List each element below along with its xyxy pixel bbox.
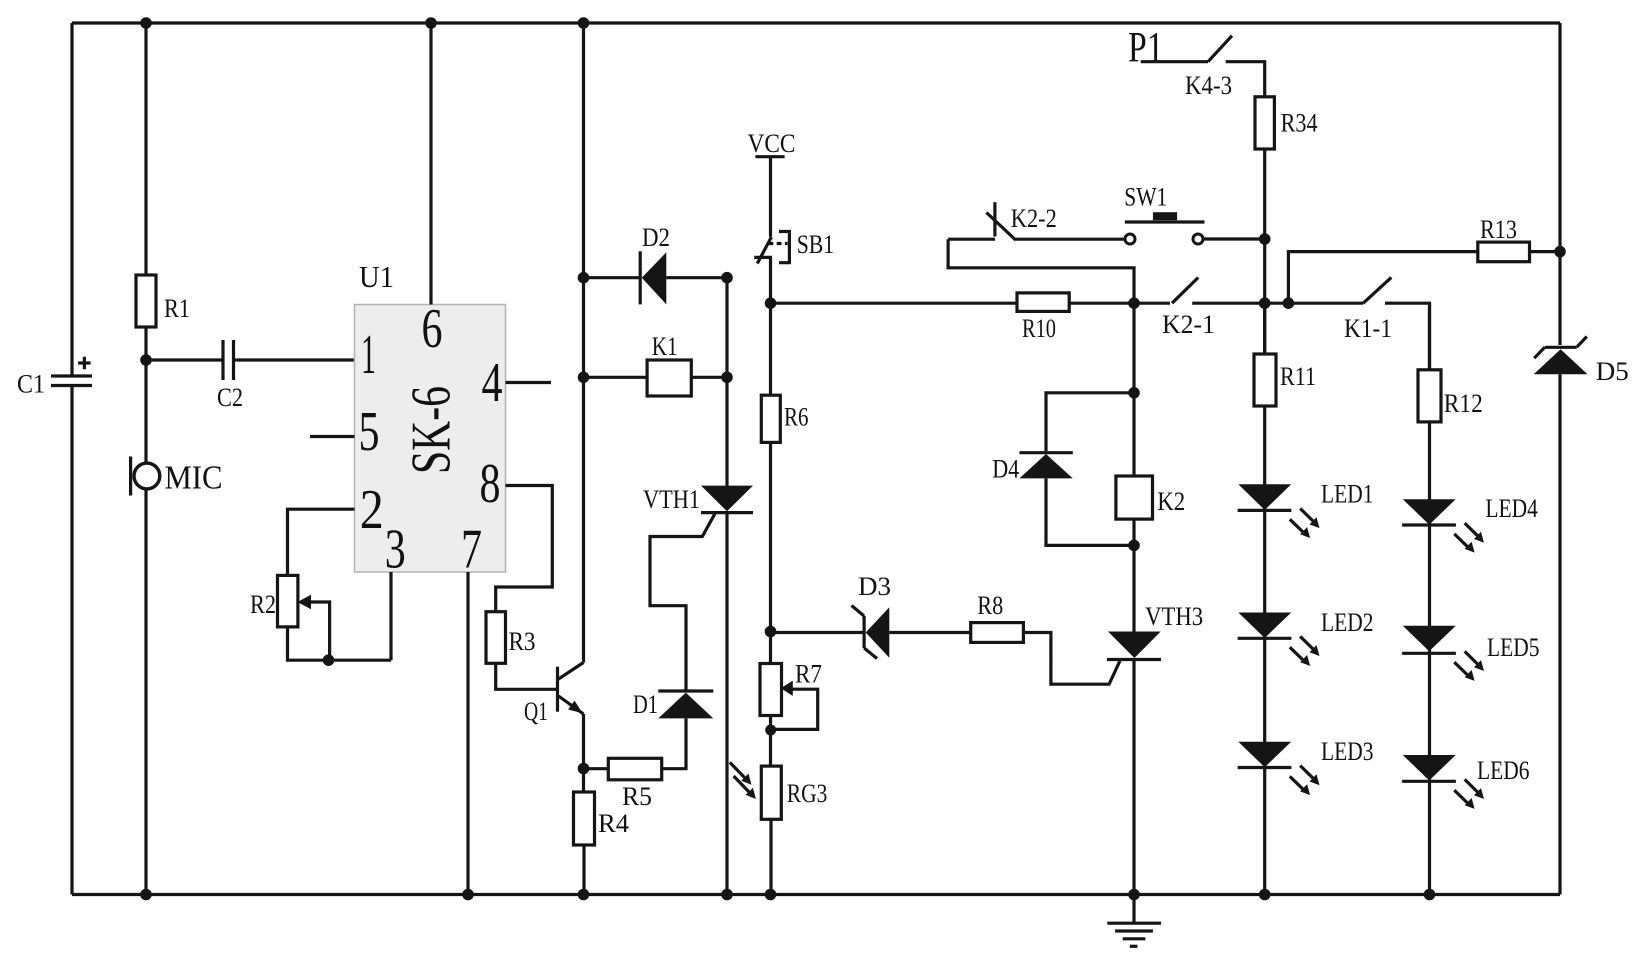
wire R6 down: [769, 442, 772, 664]
resistor R12: [1418, 370, 1483, 422]
potentiometer R2: [250, 575, 330, 660]
wire SB1 down: [769, 258, 772, 303]
resistor R8: [971, 591, 1024, 643]
wire K2-2 left drop: [948, 239, 1134, 303]
wire R1 branch: [144, 23, 147, 275]
svg-text:K2: K2: [1157, 487, 1185, 516]
capacitor C2: [217, 340, 243, 412]
switch P1 / K4-3: [1128, 24, 1265, 100]
wire pin4 stub: [506, 381, 552, 384]
wire R5 left: [584, 767, 609, 770]
diode D5 zener: [1534, 337, 1629, 387]
svg-text:SB1: SB1: [797, 230, 835, 259]
wire pin8 to R3: [496, 486, 553, 612]
switch SW1: [1124, 183, 1264, 245]
wire pin7 to bottom: [466, 572, 469, 895]
node R7 loop junction: [765, 725, 776, 736]
wire MIC to bottom: [144, 490, 147, 895]
svg-text:R3: R3: [509, 627, 536, 656]
wire top bus: [72, 21, 1560, 24]
svg-text:MIC: MIC: [165, 460, 223, 497]
wire D2 right: [666, 276, 727, 279]
svg-text:R1: R1: [164, 294, 190, 323]
wire D2 left: [584, 276, 641, 279]
svg-text:R34: R34: [1281, 108, 1318, 137]
potentiometer R7: [760, 660, 822, 730]
svg-text:K2-1: K2-1: [1162, 310, 1215, 339]
svg-text:D5: D5: [1596, 357, 1629, 386]
node D2 right: [721, 272, 733, 284]
photoresistor RG3: [730, 762, 828, 819]
wire K1 left: [584, 376, 648, 379]
resistor R6: [761, 395, 808, 442]
wire D4 branch bottom: [1046, 478, 1134, 545]
svg-text:K1-1: K1-1: [1344, 314, 1392, 343]
svg-text:LED1: LED1: [1321, 480, 1374, 509]
node emitter/R5 junction: [578, 763, 590, 775]
svg-text:R11: R11: [1280, 362, 1316, 391]
wire RG3 to bottom: [769, 819, 772, 894]
wire VCC row to R10: [771, 302, 1018, 305]
wire R8 to VTH3 gate: [1023, 633, 1120, 685]
svg-text:K2-2: K2-2: [1011, 204, 1057, 233]
svg-text:R8: R8: [977, 591, 1003, 620]
wire D3 left: [771, 631, 865, 634]
svg-text:SK-6: SK-6: [401, 386, 463, 474]
pushbutton SB1: [754, 230, 834, 264]
node bottom bus junctions: [140, 889, 1435, 901]
thyristor VTH1: [643, 485, 753, 514]
svg-text:6: 6: [422, 298, 443, 360]
op-amp U1 chip SK-6: [355, 259, 506, 581]
svg-text:LED6: LED6: [1477, 756, 1530, 785]
svg-text:C1: C1: [17, 370, 45, 399]
node K2 bottom: [1128, 540, 1140, 552]
wire emitter down: [582, 714, 585, 792]
wire D1 to R5: [662, 718, 686, 768]
node VCC row: [765, 297, 777, 309]
switch K1-1: [1344, 277, 1430, 369]
svg-text:1: 1: [361, 324, 376, 386]
wire R2 bottom loop: [288, 627, 392, 660]
relay coil K1: [647, 332, 691, 396]
wire K2 column: [1132, 303, 1135, 545]
wire VTH1 gate to D1: [650, 513, 716, 691]
svg-text:VTH1: VTH1: [643, 485, 700, 514]
svg-text:VCC: VCC: [748, 129, 796, 158]
resistor R4: [574, 792, 630, 845]
wire bottom bus: [72, 893, 1560, 896]
svg-text:LED3: LED3: [1321, 737, 1374, 766]
microphone MIC: [131, 457, 223, 497]
LED LED6: [1402, 755, 1529, 809]
svg-text:D3: D3: [858, 572, 891, 601]
svg-text:R2: R2: [250, 590, 276, 619]
diode D4: [992, 453, 1073, 484]
node R2 wiper junction: [323, 654, 335, 666]
wire VCC down: [769, 157, 772, 237]
wire C2 left: [146, 358, 222, 361]
LED LED1: [1238, 480, 1374, 539]
node K2/D4 top: [1128, 387, 1140, 399]
resistor R3: [486, 612, 536, 664]
svg-text:R6: R6: [784, 403, 809, 432]
svg-text:5: 5: [359, 401, 380, 463]
node R6/D3 junction: [765, 626, 777, 638]
resistor R5: [608, 758, 661, 811]
svg-text:K4-3: K4-3: [1185, 71, 1232, 100]
svg-text:R5: R5: [622, 782, 652, 811]
svg-text:R12: R12: [1444, 389, 1483, 418]
wire R7 down: [769, 716, 772, 766]
node R1/C2: [140, 354, 152, 366]
node top bus junctions: [140, 17, 589, 29]
thyristor VTH3: [1107, 602, 1203, 660]
svg-text:RG3: RG3: [787, 779, 828, 808]
resistor R13: [1478, 215, 1530, 262]
wire VTH1 cathode down: [725, 513, 728, 895]
wire R10 right: [1069, 302, 1170, 305]
resistor R11: [1254, 354, 1316, 406]
wire R4 to bottom: [582, 845, 585, 895]
svg-text:D2: D2: [642, 223, 670, 252]
wire R13 right: [1530, 250, 1561, 253]
resistor R10: [1017, 293, 1069, 343]
node D2 left: [578, 272, 590, 284]
node SW1/R34 junction: [1259, 233, 1271, 245]
svg-text:Q1: Q1: [524, 697, 548, 726]
diode D3 zener: [852, 572, 892, 659]
wire D2/K1 right rail: [725, 278, 728, 486]
svg-text:7: 7: [461, 519, 482, 581]
wire K2-2 branch: [986, 202, 1056, 240]
wire left rail upper: [70, 23, 73, 376]
power VCC: [748, 129, 796, 158]
svg-text:3: 3: [385, 519, 406, 581]
LED LED3: [1238, 737, 1374, 795]
wire C2 to pin1: [235, 358, 355, 361]
node K1 right: [721, 372, 733, 384]
wire R11 column: [1263, 303, 1266, 894]
wire left rail lower: [70, 386, 73, 895]
wire R3 to Q1 base: [496, 663, 556, 689]
wire K2 to VTH3: [1132, 545, 1135, 632]
wire pin3: [389, 572, 392, 660]
wire K2-2 to SW1: [948, 238, 1125, 241]
wire D4 branch top: [1046, 393, 1134, 451]
node R13/border: [1554, 246, 1566, 258]
svg-text:VTH3: VTH3: [1145, 602, 1203, 631]
resistor R1: [136, 275, 190, 327]
svg-text:2: 2: [360, 479, 384, 541]
wire right rail upper: [1558, 23, 1561, 345]
svg-text:R10: R10: [1022, 314, 1056, 343]
wire R13 branch: [1288, 252, 1477, 304]
ground: [1107, 895, 1161, 947]
wire K1 right: [691, 376, 727, 379]
svg-text:D4: D4: [992, 455, 1019, 484]
svg-text:LED2: LED2: [1321, 608, 1374, 637]
wire D3 to R8: [889, 631, 970, 634]
diode D2: [640, 223, 670, 304]
svg-text:SW1: SW1: [1124, 183, 1167, 212]
svg-text:LED4: LED4: [1485, 494, 1538, 523]
wire pin6: [429, 23, 432, 305]
node K1 left: [578, 372, 590, 384]
wire R12 column: [1428, 303, 1431, 894]
wire pin5 stub: [310, 435, 355, 438]
svg-text:R7: R7: [795, 660, 822, 689]
node K2-1 right junctions: [1259, 297, 1294, 309]
svg-text:K1: K1: [652, 332, 678, 361]
LED LED5: [1402, 626, 1539, 681]
LED LED2: [1238, 608, 1374, 666]
svg-text:R13: R13: [1480, 215, 1517, 244]
wire to R6: [769, 303, 772, 395]
svg-text:R4: R4: [598, 809, 629, 838]
svg-text:U1: U1: [359, 259, 394, 294]
wire right rail lower: [1558, 374, 1561, 894]
diode D1: [633, 690, 713, 719]
LED LED4: [1402, 494, 1538, 553]
capacitor C1: [17, 357, 92, 399]
transistor Q1: [524, 663, 584, 727]
svg-text:LED5: LED5: [1487, 633, 1540, 662]
wire collector rail from top: [582, 23, 585, 663]
relay coil K2: [1116, 476, 1185, 519]
svg-text:D1: D1: [633, 690, 658, 719]
svg-text:P1: P1: [1128, 24, 1164, 71]
wire R1 to MIC: [144, 327, 147, 463]
node R10/K2 column: [1128, 297, 1140, 309]
svg-text:4: 4: [482, 352, 503, 414]
svg-text:8: 8: [480, 453, 501, 515]
wire pin2 to R2: [288, 509, 355, 575]
svg-text:C2: C2: [217, 383, 243, 412]
resistor R34: [1255, 97, 1318, 149]
wire VTH3 down: [1132, 660, 1135, 895]
switch K2-1: [1162, 278, 1363, 340]
wire R34 down: [1263, 149, 1266, 354]
